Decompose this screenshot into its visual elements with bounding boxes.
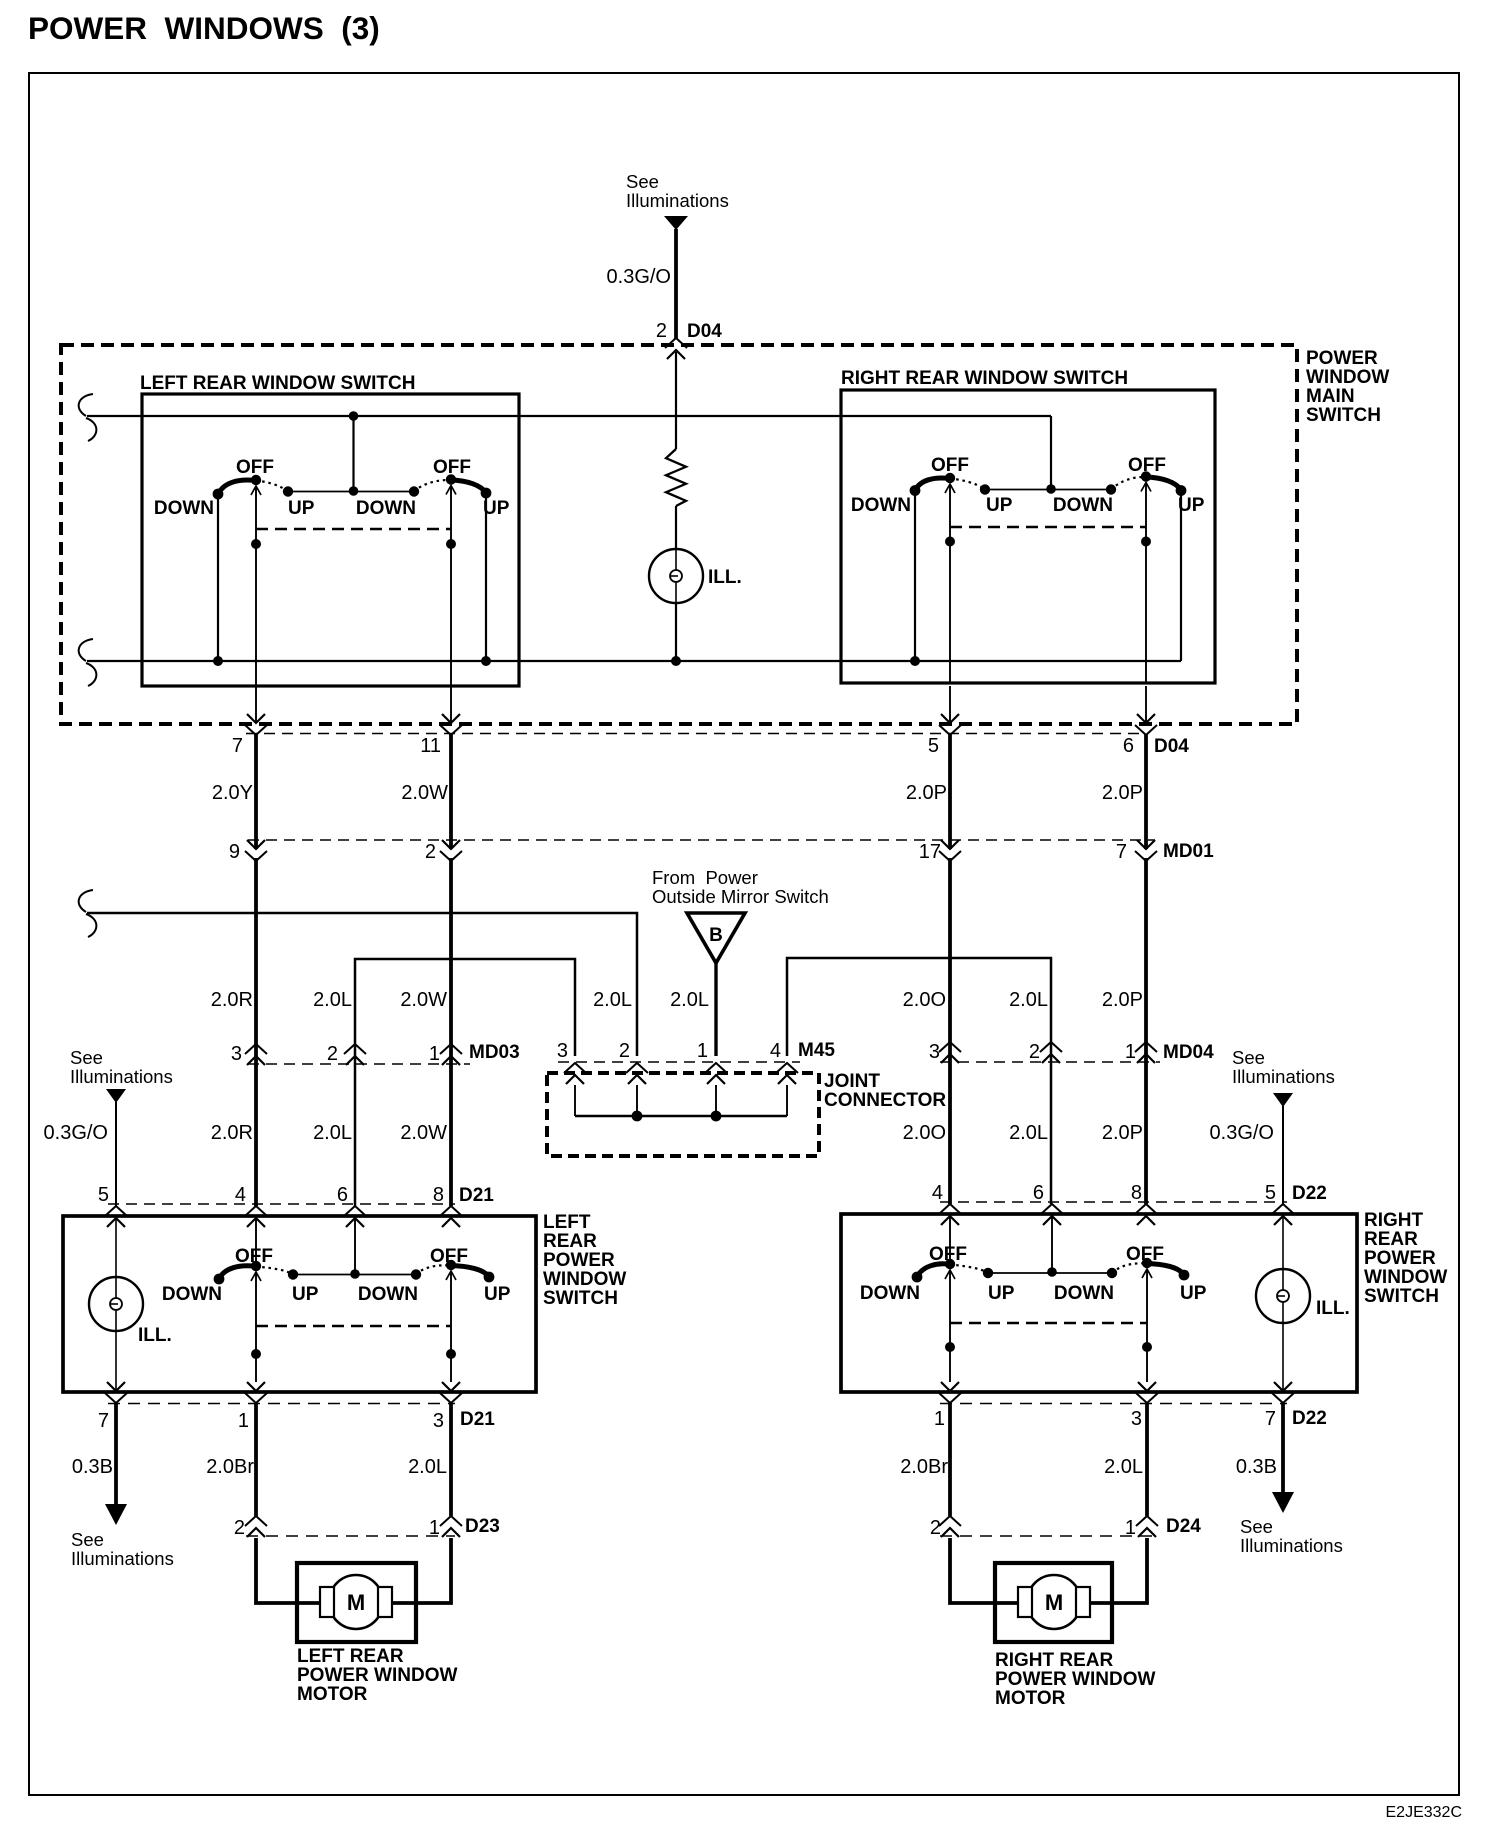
wire D23-2 to motor left	[256, 1538, 322, 1603]
wire D24-1 to motor right	[1088, 1538, 1147, 1603]
svg-text:OFF: OFF	[929, 1244, 967, 1265]
svg-text:6: 6	[1033, 1182, 1044, 1204]
svg-text:From Power: From Power	[652, 867, 758, 888]
wire labels 0.3B 2.0Br 2.0L (left)	[72, 1456, 447, 1478]
svg-text:3: 3	[433, 1410, 444, 1432]
svg-text:0.3G/O: 0.3G/O	[44, 1122, 108, 1144]
svg-text:1: 1	[429, 1517, 440, 1539]
svg-text:2.0O: 2.0O	[903, 1122, 946, 1144]
svg-text:2.0Br: 2.0Br	[206, 1456, 254, 1478]
svg-text:UP: UP	[986, 495, 1013, 516]
wire center tap left box	[352, 416, 354, 491]
switch 2 right lower box	[1054, 1244, 1207, 1304]
svg-text:POWER: POWER	[1364, 1248, 1436, 1269]
switch 2 left box	[356, 457, 510, 519]
svg-text:DOWN: DOWN	[851, 495, 911, 516]
svg-text:M: M	[1045, 1590, 1063, 1615]
svg-text:2: 2	[234, 1517, 245, 1539]
svg-text:POWER WINDOWS (3): POWER WINDOWS (3)	[28, 10, 380, 46]
svg-text:DOWN: DOWN	[1053, 495, 1113, 516]
svg-text:ILL.: ILL.	[138, 1325, 172, 1346]
svg-text:M: M	[347, 1590, 365, 1615]
svg-text:1: 1	[1125, 1041, 1136, 1063]
connector D04 row (pins 7,11,5,6)	[232, 714, 1189, 757]
svg-text:DOWN: DOWN	[162, 1284, 222, 1305]
svg-text:2: 2	[1029, 1041, 1040, 1063]
motor M (right rear power window motor)	[995, 1563, 1112, 1642]
svg-text:D23: D23	[465, 1516, 500, 1537]
lamp ILL (left switch)	[89, 1277, 172, 1346]
svg-text:OFF: OFF	[433, 457, 471, 478]
svg-text:1: 1	[238, 1410, 249, 1432]
svg-text:2.0P: 2.0P	[906, 782, 947, 804]
svg-text:0.3G/O: 0.3G/O	[607, 266, 671, 288]
svg-text:7: 7	[232, 735, 243, 757]
wire box exit to D04 x=451	[450, 686, 452, 723]
svg-text:LEFT REAR: LEFT REAR	[297, 1646, 404, 1667]
node link center (left lower box)	[350, 1269, 360, 1279]
node joint bus pin1	[711, 1111, 722, 1122]
connector D23 row (pins 2,1)	[234, 1516, 500, 1539]
wire labels row above D21/D22	[44, 1122, 1274, 1144]
wire lamp to bottom bus	[675, 603, 677, 661]
wire M45-4 into joint bus	[786, 1085, 788, 1116]
svg-text:D24: D24	[1166, 1516, 1201, 1537]
svg-text:0.3B: 0.3B	[72, 1456, 113, 1478]
svg-text:B: B	[709, 925, 723, 946]
label RIGHT REAR POWER WINDOW SWITCH	[1364, 1210, 1447, 1307]
wire box exit to D04 x=1146	[1145, 686, 1147, 723]
wire D21-7 0.3B down	[114, 1403, 118, 1506]
wire resistor to lamp	[675, 506, 677, 549]
svg-text:2.0P: 2.0P	[1102, 782, 1143, 804]
wire MD01-9 to D21-4	[254, 858, 258, 1206]
lamp ILL (right switch)	[1256, 1269, 1350, 1323]
wire D24-2 to motor left	[950, 1538, 1020, 1603]
wire D04-11 to MD01-2	[449, 734, 453, 849]
svg-text:D22: D22	[1292, 1408, 1327, 1429]
node link center (right lower box)	[1047, 1267, 1057, 1277]
wire D04-6 to MD01-7	[1144, 734, 1148, 849]
svg-text:2.0L: 2.0L	[1104, 1456, 1143, 1478]
connector D22 top row (pins 4,6,8,5)	[932, 1182, 1327, 1225]
svg-text:5: 5	[98, 1184, 109, 1206]
wire link UP1-DOWN2 (right lower box)	[988, 1272, 1112, 1274]
wire UP2 to bottom bus (right box)	[1180, 491, 1182, 662]
svg-text:UP: UP	[288, 498, 315, 519]
svg-text:D04: D04	[687, 321, 722, 342]
svg-text:2.0L: 2.0L	[408, 1456, 447, 1478]
svg-text:WINDOW: WINDOW	[1364, 1267, 1447, 1288]
svg-text:DOWN: DOWN	[358, 1284, 418, 1305]
wire top bus y416	[87, 415, 1051, 417]
label JOINT CONNECTOR	[824, 1071, 946, 1111]
svg-text:8: 8	[1131, 1182, 1142, 1204]
svg-text:MD01: MD01	[1163, 841, 1214, 862]
connector D22 bottom row (pins 1,3,7)	[934, 1382, 1327, 1430]
svg-text:7: 7	[1265, 1408, 1276, 1430]
svg-text:2.0W: 2.0W	[400, 989, 447, 1011]
svg-text:2.0W: 2.0W	[400, 1122, 447, 1144]
left rear window switch box	[142, 394, 519, 686]
svg-text:8: 8	[433, 1184, 444, 1206]
hook mid bus	[79, 890, 97, 937]
connector MD04 row (pins 3,2,1)	[929, 1041, 1214, 1063]
svg-text:OFF: OFF	[236, 457, 274, 478]
switch 1 left box	[154, 457, 315, 519]
wire OFF1 down to pin1 (left lower box)	[255, 1272, 257, 1382]
svg-text:2.0P: 2.0P	[1102, 1122, 1143, 1144]
svg-text:WINDOW: WINDOW	[1306, 367, 1389, 388]
svg-text:Outside Mirror Switch: Outside Mirror Switch	[652, 886, 829, 907]
wire M45-1 into joint bus	[715, 1085, 717, 1116]
wire M45-4 riser to right box pin6 run	[787, 958, 1051, 1204]
svg-text:DOWN: DOWN	[860, 1283, 920, 1304]
svg-text:Illuminations: Illuminations	[71, 1548, 174, 1569]
svg-text:UP: UP	[1180, 1283, 1207, 1304]
svg-text:7: 7	[98, 1410, 109, 1432]
wire D22-7 0.3B down	[1281, 1403, 1285, 1494]
svg-text:2.0L: 2.0L	[313, 1122, 352, 1144]
svg-text:ILL.: ILL.	[1316, 1298, 1350, 1319]
wire MD01-17 to D22-4	[948, 858, 952, 1204]
wire link UP1-DOWN2 (left box)	[288, 491, 414, 493]
svg-text:OFF: OFF	[235, 1246, 273, 1267]
right rear power window switch box	[841, 1214, 1357, 1392]
svg-text:2.0O: 2.0O	[903, 989, 946, 1011]
svg-text:3: 3	[929, 1041, 940, 1063]
svg-text:D04: D04	[1154, 736, 1189, 757]
wire labels 2.0Br 2.0L 0.3B (right)	[900, 1456, 1277, 1478]
node OFF1 branch (left lower box)	[251, 1349, 261, 1359]
svg-text:1: 1	[697, 1040, 708, 1062]
svg-text:2.0Br: 2.0Br	[900, 1456, 948, 1478]
wire OFF2 down to pin3 (left lower box)	[450, 1271, 452, 1382]
wire OFF1 contact down (right box)	[949, 484, 951, 683]
node link center (left box)	[349, 486, 359, 496]
wire labels row above MD03/M45/MD04	[211, 989, 1143, 1011]
svg-text:4: 4	[770, 1040, 781, 1062]
wire box exit to D04 x=950	[949, 686, 951, 723]
svg-text:See: See	[71, 1529, 104, 1550]
svg-text:6: 6	[337, 1184, 348, 1206]
wire pin6 to link (right lower box)	[1051, 1216, 1053, 1272]
svg-text:D21: D21	[460, 1409, 495, 1430]
lamp ILL (main switch)	[649, 549, 742, 603]
wire D04-7 to MD01-9	[254, 734, 258, 849]
wire 0.3G/O to D22-5	[1282, 1106, 1284, 1204]
svg-text:9: 9	[229, 841, 240, 863]
right rear window switch box	[841, 390, 1215, 683]
svg-text:1: 1	[934, 1408, 945, 1430]
svg-text:See: See	[626, 171, 659, 192]
svg-text:SWITCH: SWITCH	[543, 1288, 618, 1309]
svg-text:DOWN: DOWN	[1054, 1283, 1114, 1304]
svg-text:2: 2	[425, 841, 436, 863]
svg-text:2.0P: 2.0P	[1102, 989, 1143, 1011]
svg-text:2.0L: 2.0L	[1009, 1122, 1048, 1144]
joint connector bus wire	[575, 1115, 787, 1118]
svg-text:POWER: POWER	[1306, 348, 1378, 369]
dashed interlock (right lower box)	[950, 1322, 1147, 1325]
svg-text:REAR: REAR	[543, 1231, 597, 1252]
svg-text:2.0L: 2.0L	[313, 989, 352, 1011]
svg-text:Illuminations: Illuminations	[70, 1066, 173, 1087]
svg-text:2.0Y: 2.0Y	[212, 782, 253, 804]
label See Illuminations (bottom left)	[71, 1529, 174, 1569]
label See Illuminations (mid right)	[1232, 1047, 1335, 1087]
svg-text:2.0L: 2.0L	[593, 989, 632, 1011]
switch 2 left lower box	[358, 1246, 511, 1305]
wire D22-3 to D24-1	[1145, 1403, 1149, 1516]
svg-text:2: 2	[656, 320, 667, 342]
svg-text:D22: D22	[1292, 1183, 1327, 1204]
wire ILL left switch top	[115, 1218, 117, 1277]
svg-text:1: 1	[1125, 1517, 1136, 1539]
svg-text:3: 3	[231, 1043, 242, 1065]
svg-text:UP: UP	[292, 1284, 319, 1305]
svg-text:See: See	[1232, 1047, 1265, 1068]
wire OFF1 contact down (left box)	[255, 486, 257, 686]
svg-text:Illuminations: Illuminations	[1232, 1066, 1335, 1087]
svg-text:REAR: REAR	[1364, 1229, 1418, 1250]
wire bottom bus y661	[87, 660, 1181, 662]
wire DOWN1 to bottom bus (left box)	[217, 494, 219, 661]
wire OFF2 contact down (left box)	[450, 486, 452, 687]
svg-text:E2JE332C: E2JE332C	[1386, 1804, 1463, 1821]
arrow from illuminations (top)	[664, 216, 688, 230]
svg-text:5: 5	[1265, 1182, 1276, 1204]
arrow to illuminations (bottom right)	[1272, 1492, 1294, 1513]
connector MD01 row (pins 9,2,17,7)	[229, 840, 1214, 863]
wire link UP1-DOWN2 (left lower box)	[293, 1274, 416, 1276]
wire box exit to D04 x=256	[255, 686, 257, 723]
svg-text:RIGHT REAR: RIGHT REAR	[995, 1650, 1114, 1671]
wire B to M45-1	[714, 963, 717, 1056]
connector D24 row (pins 2,1)	[930, 1516, 1201, 1539]
node OFF1 branch (right box)	[945, 537, 955, 547]
svg-text:SWITCH: SWITCH	[1364, 1286, 1439, 1307]
svg-text:POWER WINDOW: POWER WINDOW	[995, 1669, 1155, 1690]
arrow from illuminations (mid left)	[106, 1089, 126, 1103]
node bottom bus DOWN1 (right box)	[910, 656, 920, 666]
label See Illuminations (top)	[626, 171, 729, 211]
label RIGHT REAR POWER WINDOW MOTOR	[995, 1650, 1155, 1709]
arrow to illuminations (bottom left)	[105, 1504, 127, 1525]
svg-text:2: 2	[327, 1043, 338, 1065]
node bottom bus lamp	[671, 656, 681, 666]
svg-text:7: 7	[1116, 841, 1127, 863]
svg-text:RIGHT: RIGHT	[1364, 1210, 1424, 1231]
switch 2 right box	[1053, 455, 1205, 516]
svg-text:4: 4	[932, 1182, 943, 1204]
svg-text:LEFT REAR WINDOW SWITCH: LEFT REAR WINDOW SWITCH	[140, 373, 415, 394]
wire D04-5 to MD01-17	[948, 734, 952, 849]
wire D22-1 to D24-2	[948, 1403, 952, 1516]
svg-text:2.0L: 2.0L	[1009, 989, 1048, 1011]
wire pin4 to OFF1 (left lower box)	[255, 1218, 257, 1266]
svg-text:3: 3	[1131, 1408, 1142, 1430]
wire D04 pin2 to resistor	[675, 352, 677, 449]
svg-text:SWITCH: SWITCH	[1306, 405, 1381, 426]
svg-text:MD04: MD04	[1163, 1042, 1214, 1063]
dashed interlock line (right box)	[950, 526, 1146, 529]
connector D21 top row (pins 5,4,6,8)	[98, 1184, 494, 1227]
power window main switch dashed box	[61, 345, 1297, 724]
svg-text:MOTOR: MOTOR	[995, 1688, 1066, 1709]
svg-text:4: 4	[235, 1184, 246, 1206]
svg-text:ILL.: ILL.	[708, 567, 742, 588]
motor M (left rear power window motor)	[297, 1563, 416, 1642]
wire 0.3G/O to D21-5	[115, 1102, 117, 1206]
wire pin4 to OFF1 (right lower box)	[949, 1216, 951, 1264]
svg-text:OFF: OFF	[430, 1246, 468, 1267]
connector D21 bottom row (pins 7,1,3)	[98, 1382, 495, 1432]
svg-text:6: 6	[1123, 735, 1134, 757]
svg-text:2.0R: 2.0R	[211, 989, 253, 1011]
svg-text:11: 11	[420, 735, 441, 757]
label LEFT REAR POWER WINDOW MOTOR	[297, 1646, 457, 1705]
svg-text:Illuminations: Illuminations	[626, 190, 729, 211]
svg-text:MD03: MD03	[469, 1042, 520, 1063]
wire link UP1-DOWN2 (right box)	[985, 489, 1111, 491]
svg-text:POWER WINDOW: POWER WINDOW	[297, 1665, 457, 1686]
svg-text:WINDOW: WINDOW	[543, 1269, 626, 1290]
wire mid bus to M45-2	[87, 913, 637, 1056]
wire 0.3G/O from illuminations to D04 pin 2	[674, 229, 678, 339]
wire ILL right switch bottom	[1282, 1323, 1284, 1391]
svg-text:3: 3	[557, 1040, 568, 1062]
svg-text:UP: UP	[988, 1283, 1015, 1304]
svg-text:OFF: OFF	[931, 455, 969, 476]
label From Power Outside Mirror Switch	[652, 867, 829, 907]
label See Illuminations (mid left)	[70, 1047, 173, 1087]
node OFF1 branch (right lower box)	[945, 1342, 955, 1352]
svg-text:Illuminations: Illuminations	[1240, 1535, 1343, 1556]
arrow from illuminations (mid right)	[1273, 1093, 1293, 1107]
svg-text:JOINT: JOINT	[824, 1071, 880, 1092]
svg-text:OFF: OFF	[1126, 1244, 1164, 1265]
svg-text:0.3G/O: 0.3G/O	[1210, 1122, 1274, 1144]
svg-text:17: 17	[919, 841, 941, 863]
node joint bus pin2	[632, 1111, 643, 1122]
joint connector dashed box	[547, 1073, 819, 1156]
svg-text:2.0L: 2.0L	[670, 989, 709, 1011]
connector M45 row (pins 3,2,1,4)	[557, 1040, 836, 1084]
svg-text:POWER: POWER	[543, 1250, 615, 1271]
svg-text:See: See	[1240, 1516, 1273, 1537]
wire DOWN1 to bottom bus (right box)	[914, 491, 916, 662]
connector D04 pin 2	[656, 320, 722, 359]
hook bottom bus	[79, 639, 97, 686]
wire labels 2.0Y 2.0W 2.0P 2.0P	[212, 782, 1143, 804]
label POWER WINDOW MAIN SWITCH	[1306, 348, 1389, 426]
wire OFF1 down to pin1 (right lower box)	[949, 1270, 951, 1382]
label LEFT REAR POWER WINDOW SWITCH	[543, 1212, 626, 1309]
wire 355 corner to M45-3	[355, 959, 575, 1206]
switch 1 left lower box	[162, 1246, 319, 1305]
left rear power window switch box	[63, 1216, 536, 1392]
wire D23-1 to motor right	[390, 1538, 451, 1603]
svg-text:2.0W: 2.0W	[401, 782, 448, 804]
node bottom bus DOWN1 (left box)	[213, 656, 223, 666]
svg-text:UP: UP	[484, 1284, 511, 1305]
wire MD01-7 to D22-8	[1144, 858, 1148, 1204]
svg-text:MAIN: MAIN	[1306, 386, 1355, 407]
node OFF2 branch (left lower box)	[446, 1349, 456, 1359]
wire D21-3 to D23-1	[449, 1403, 453, 1516]
node top bus tap (left box)	[349, 411, 359, 421]
svg-text:RIGHT REAR WINDOW SWITCH: RIGHT REAR WINDOW SWITCH	[841, 368, 1128, 389]
wire center tap right box	[1050, 416, 1052, 489]
dashed interlock line (left box)	[256, 528, 451, 531]
svg-text:M45: M45	[798, 1040, 835, 1061]
dashed interlock (left lower box)	[256, 1325, 451, 1328]
svg-text:DOWN: DOWN	[154, 498, 214, 519]
wire MD01-2 to D21-8	[449, 858, 453, 1206]
svg-text:2.0R: 2.0R	[211, 1122, 253, 1144]
node OFF1 branch (left box)	[251, 539, 261, 549]
hook top bus	[79, 394, 97, 441]
node link center (right box)	[1046, 484, 1056, 494]
wire OFF2 down to pin3 (right lower box)	[1146, 1269, 1148, 1382]
svg-text:5: 5	[928, 735, 939, 757]
svg-text:0.3B: 0.3B	[1236, 1456, 1277, 1478]
switch 1 right box	[851, 455, 1013, 516]
wire ILL right switch top	[1282, 1216, 1284, 1269]
label See Illuminations (bottom right)	[1240, 1516, 1343, 1556]
wire OFF2 contact down (right box)	[1145, 483, 1147, 684]
wire M45-3 into joint bus	[574, 1085, 576, 1116]
node OFF2 branch (right box)	[1141, 537, 1151, 547]
wire M45-2 into joint bus	[636, 1085, 638, 1116]
svg-text:LEFT: LEFT	[543, 1212, 591, 1233]
node OFF2 branch (right lower box)	[1142, 1342, 1152, 1352]
svg-text:See: See	[70, 1047, 103, 1068]
wire D21-1 to D23-2	[254, 1403, 258, 1516]
svg-text:2: 2	[930, 1517, 941, 1539]
svg-text:1: 1	[429, 1043, 440, 1065]
resistor (illumination)	[666, 449, 686, 506]
wire ILL left switch bottom	[115, 1331, 117, 1391]
node bottom bus UP2 (left box)	[481, 656, 491, 666]
triangle connector B (from power outside mirror switch)	[687, 913, 745, 963]
svg-text:2: 2	[619, 1040, 630, 1062]
svg-text:D21: D21	[459, 1185, 494, 1206]
svg-text:CONNECTOR: CONNECTOR	[824, 1090, 946, 1111]
svg-text:DOWN: DOWN	[356, 498, 416, 519]
node OFF2 branch (left box)	[446, 539, 456, 549]
wire UP2 to bottom bus (left box)	[485, 493, 487, 661]
wire pin6 to link (left lower box)	[354, 1218, 356, 1274]
svg-text:MOTOR: MOTOR	[297, 1684, 368, 1705]
connector MD03 row (pins 3,2,1)	[231, 1042, 520, 1065]
svg-text:OFF: OFF	[1128, 455, 1166, 476]
switch 1 right lower box	[860, 1244, 1015, 1304]
